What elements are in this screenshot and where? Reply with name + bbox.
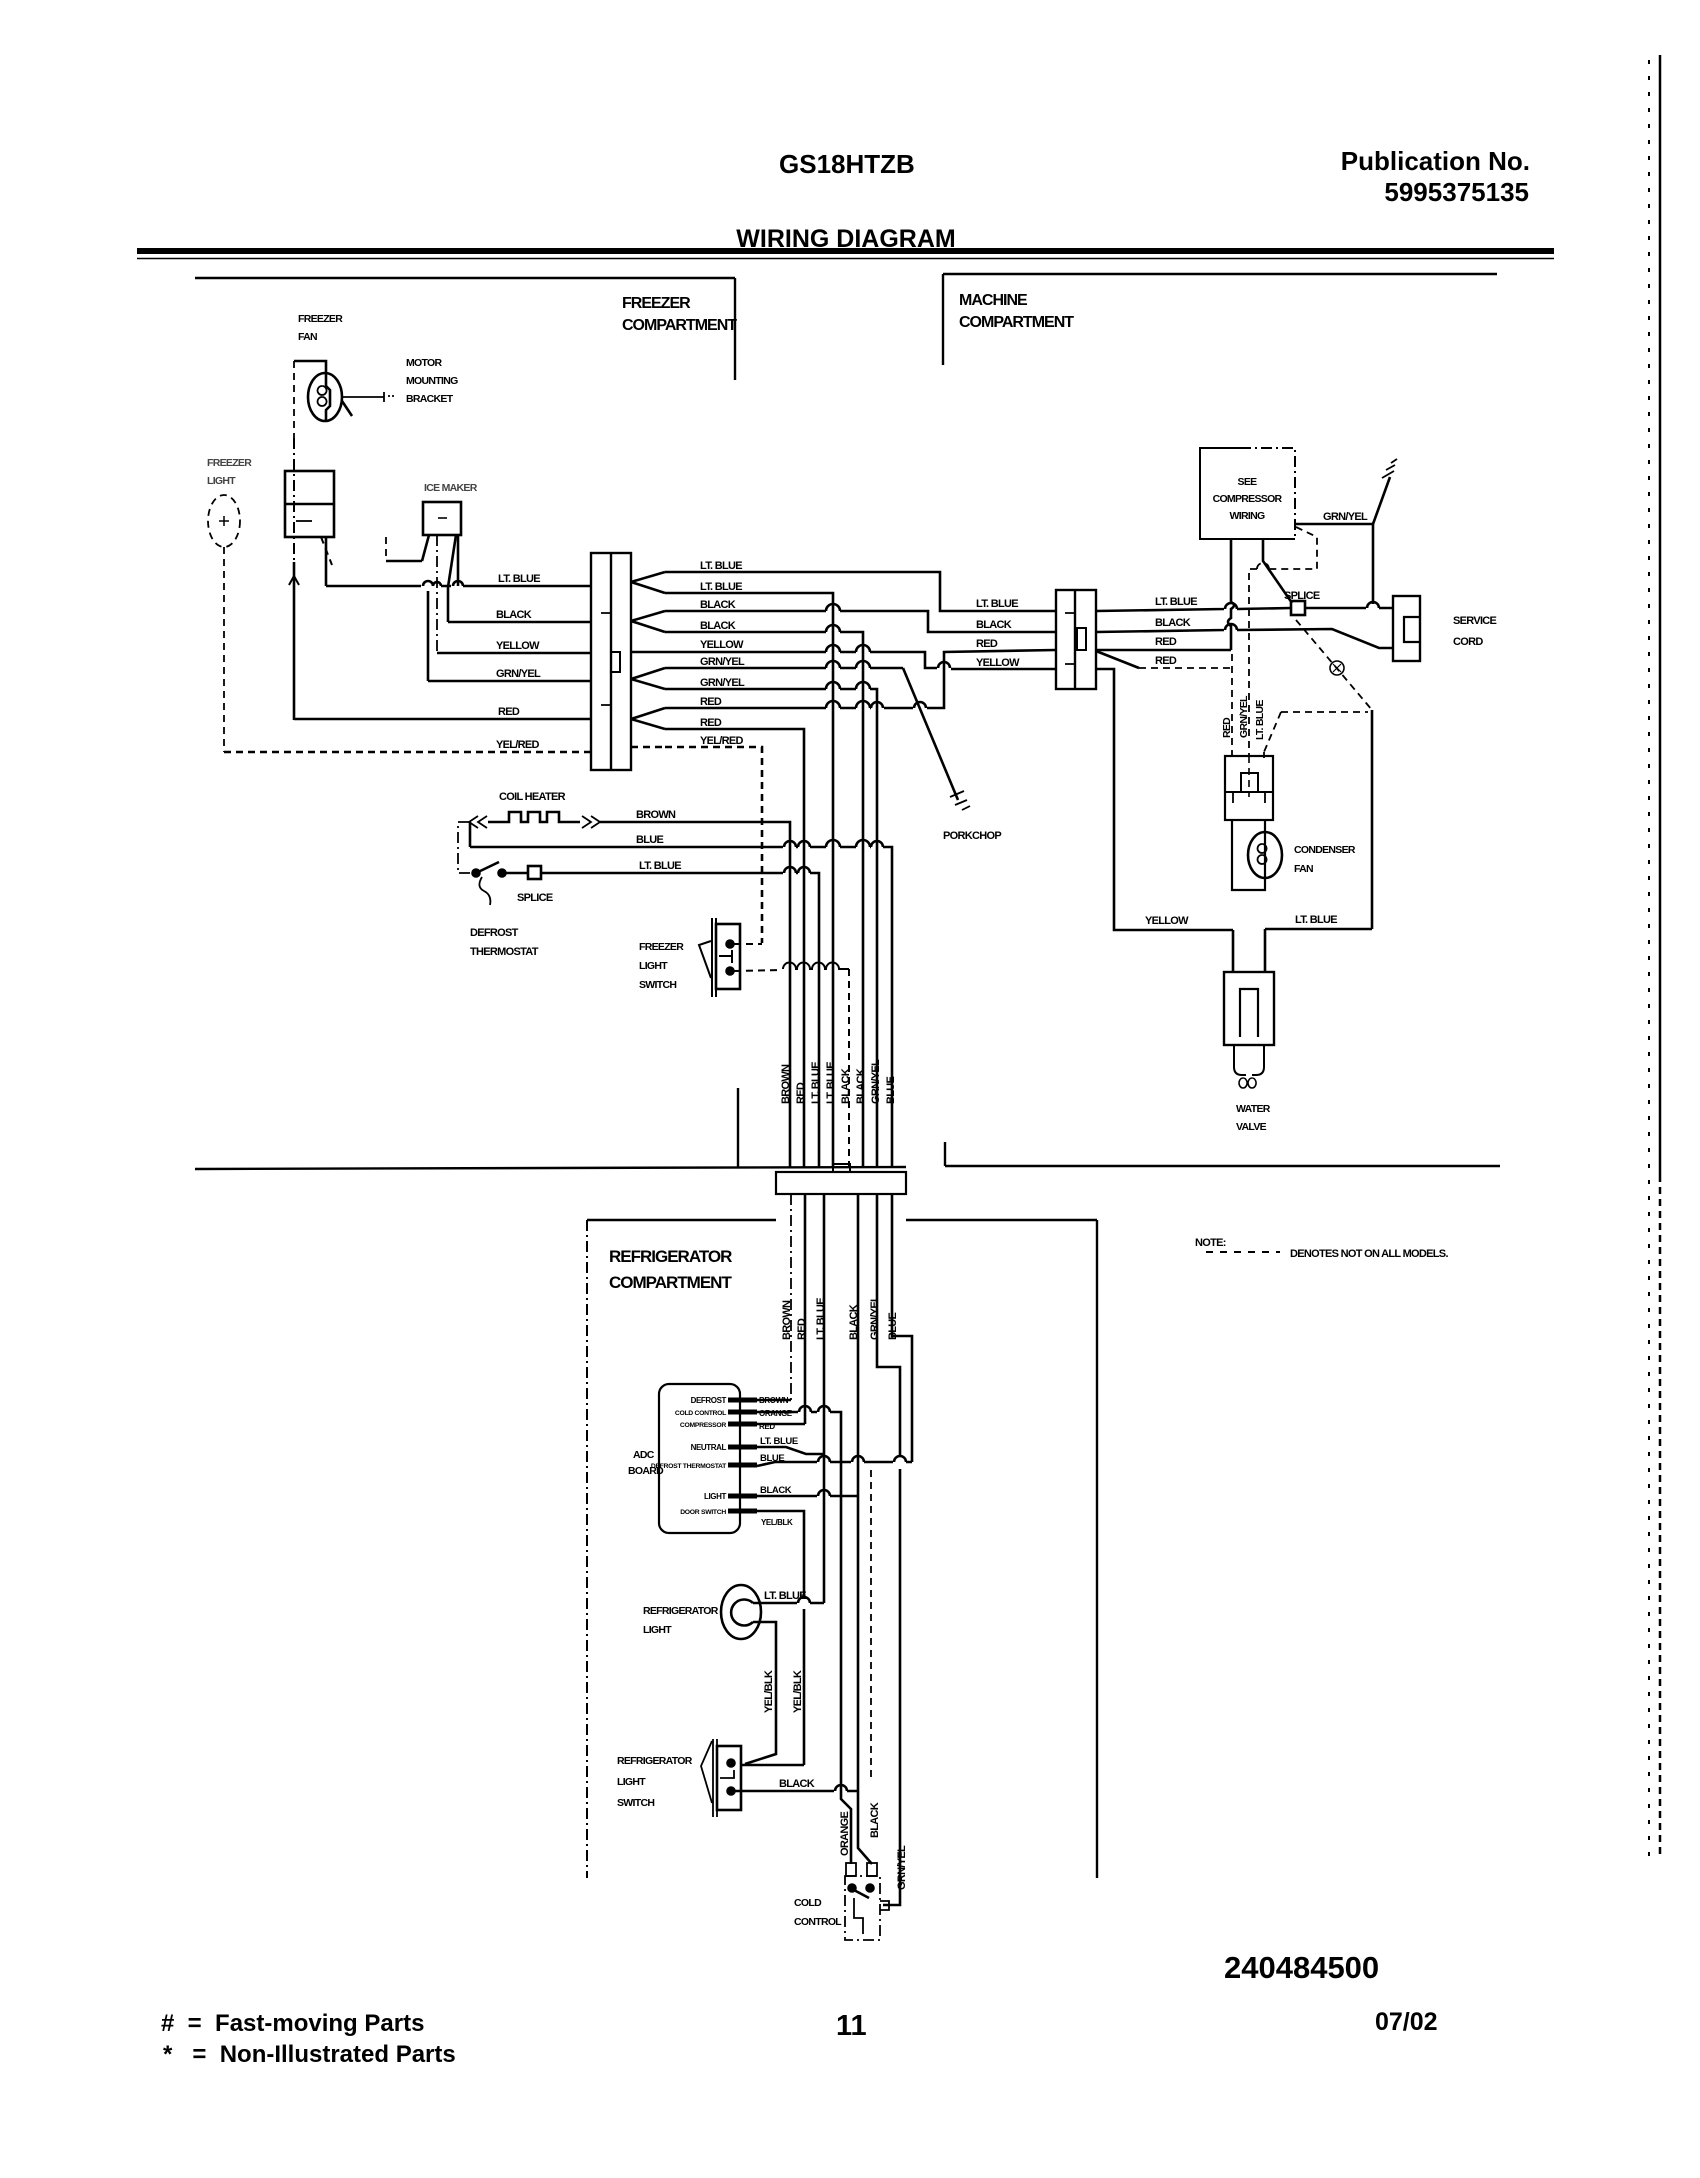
- freezer light bulb center mark: [219, 516, 229, 526]
- wire grn/yel 2 hops then bundle drop x877: [665, 682, 877, 1167]
- freezer fan bracket wire: [294, 361, 326, 374]
- wire lt blue ice maker riser: [457, 536, 460, 586]
- svg-text:BROWN: BROWN: [781, 1300, 793, 1340]
- wire red dash-dot riser from fan bracket: [293, 438, 295, 562]
- svg-text:BLACK: BLACK: [976, 619, 1012, 631]
- see compressor wiring box: [1200, 448, 1295, 539]
- grn/yel dashed route to splice area: [1249, 527, 1317, 756]
- wire black drop to cold control: [858, 1194, 872, 1864]
- svg-text:* = Non-Illustrated Parts: * = Non-Illustrated Parts: [163, 2041, 456, 2068]
- cold control right pin stub: [880, 1901, 889, 1910]
- bundle connector J3 body: [776, 1172, 906, 1194]
- connector J2 key notch: [1077, 628, 1086, 650]
- svg-text:BLACK: BLACK: [760, 1485, 792, 1496]
- freezer light bulb dashed circle: [208, 495, 240, 547]
- coil heater element: [488, 812, 580, 822]
- ADC pin neutral: [728, 1445, 757, 1450]
- ADC pin defrost thermostat: [728, 1463, 757, 1468]
- svg-text:BLACK: BLACK: [700, 620, 736, 632]
- water valve feed right: [1264, 929, 1267, 972]
- refrigerator compartment top border left: [587, 1219, 776, 1221]
- refrigerator light switch flag: [701, 1741, 712, 1803]
- connector J1 pin yellow stub: [631, 651, 665, 654]
- svg-text:BLUE: BLUE: [885, 1076, 897, 1104]
- svg-text:PORKCHOP: PORKCHOP: [943, 830, 1001, 842]
- svg-text:WATER: WATER: [1236, 1103, 1271, 1115]
- svg-text:DENOTES NOT ON ALL MODELS.: DENOTES NOT ON ALL MODELS.: [1290, 1248, 1448, 1260]
- splice square: [1291, 601, 1305, 615]
- svg-text:FREEZER: FREEZER: [622, 295, 691, 312]
- svg-text:REFRIGERATOR: REFRIGERATOR: [609, 1247, 732, 1266]
- wire blue row to defrost thermostat pin: [757, 1456, 912, 1466]
- compressor box right pin drop to splice diagonal: [1263, 539, 1292, 603]
- compressor pedestal: [1232, 820, 1265, 890]
- svg-text:COLD: COLD: [794, 1897, 822, 1909]
- dashed boundary horizontal: [1281, 711, 1368, 713]
- wire red dashed drop to relay: [1231, 654, 1233, 756]
- cold control lever: [852, 1889, 869, 1898]
- svg-text:CORD: CORD: [1453, 636, 1483, 648]
- freezer fan red lead diagonal: [342, 401, 352, 416]
- svg-text:YEL/BLK: YEL/BLK: [761, 1518, 793, 1527]
- svg-text:LIGHT: LIGHT: [617, 1776, 646, 1788]
- main connector J1 key notch: [611, 652, 620, 672]
- svg-text:RED: RED: [795, 1082, 807, 1104]
- svg-text:# = Fast-moving Parts: # = Fast-moving Parts: [161, 2010, 424, 2037]
- freezer fan bracket dashed drop: [293, 361, 295, 438]
- freezer compartment bottom right stub: [737, 1088, 739, 1168]
- svg-text:LT. BLUE: LT. BLUE: [1155, 596, 1197, 608]
- wire grn/yel 1 run hops to porkchop diagonal: [665, 661, 903, 668]
- wire red riser to red row: [293, 562, 296, 720]
- svg-text:LT. BLUE: LT. BLUE: [810, 1062, 822, 1104]
- motor mounting bracket lead: [342, 396, 384, 398]
- relay overload box: [1225, 756, 1273, 820]
- svg-text:LT. BLUE: LT. BLUE: [976, 598, 1018, 610]
- connector J1 chevron pin grn/yel: [631, 668, 665, 689]
- svg-text:BRACKET: BRACKET: [406, 393, 454, 405]
- freezer compartment right border stub: [734, 278, 736, 380]
- ice maker pin A arm: [386, 560, 422, 563]
- ice maker box: [423, 502, 461, 535]
- relay divider: [1225, 791, 1273, 793]
- rule echo line: [137, 258, 1554, 260]
- wire yel/red freezer light dashed drop: [223, 547, 225, 752]
- svg-text:REFRIGERATOR: REFRIGERATOR: [643, 1605, 719, 1617]
- svg-text:GRN/YEL: GRN/YEL: [869, 1295, 881, 1340]
- wire lt blue bottom run: [1265, 928, 1372, 931]
- freezer light switch notch: [719, 950, 732, 963]
- svg-text:YELLOW: YELLOW: [976, 657, 1020, 669]
- coil heater left arrows: [469, 816, 487, 828]
- svg-text:DEFROST: DEFROST: [691, 1396, 727, 1405]
- connector J2 body: [1056, 590, 1096, 689]
- svg-text:GRN/YEL: GRN/YEL: [700, 656, 745, 668]
- wire red 1 run hops and rise to connector2: [665, 650, 1056, 708]
- water valve body: [1224, 972, 1274, 1045]
- motor mounting bracket pin symbol: [384, 392, 394, 402]
- svg-text:REFRIGERATOR: REFRIGERATOR: [617, 1755, 693, 1767]
- condenser fan coil: [1258, 844, 1267, 864]
- service cord plug body: [1393, 596, 1420, 661]
- page edge inner dotted line: [1648, 60, 1650, 1860]
- page edge lower dashed line: [1659, 1175, 1662, 1855]
- freezer light housing contact: [296, 520, 312, 522]
- svg-text:RED: RED: [976, 638, 998, 650]
- ice maker pin A dashed stub: [385, 537, 387, 560]
- freezer light switch mounting plate: [712, 918, 716, 997]
- cold control pin stub black: [867, 1863, 877, 1876]
- svg-text:MOTOR: MOTOR: [406, 357, 443, 369]
- wire lt blue row to connector: [326, 581, 591, 586]
- freezer light housing dashed lead: [321, 537, 332, 565]
- machine compartment bottom left stub: [944, 1142, 946, 1166]
- svg-text:LT. BLUE: LT. BLUE: [815, 1298, 827, 1340]
- wire brown dash-dot drop to ADC: [790, 1194, 792, 1400]
- cold control pin stub orange: [846, 1863, 856, 1876]
- svg-text:RED: RED: [700, 696, 722, 708]
- svg-text:SERVICE: SERVICE: [1453, 615, 1497, 627]
- svg-text:CONDENSER: CONDENSER: [1294, 844, 1356, 856]
- wire orange pin with hops to drop x841: [757, 1406, 851, 1864]
- svg-text:FREEZER: FREEZER: [207, 457, 252, 469]
- svg-text:COMPARTMENT: COMPARTMENT: [609, 1273, 732, 1292]
- service cord plug notch: [1404, 617, 1420, 642]
- wire lt blue run hops to bundle drop x819: [541, 867, 819, 1167]
- svg-text:BLUE: BLUE: [887, 1312, 899, 1340]
- water valve prongs: [1234, 1045, 1264, 1075]
- wire yel/red dashed row to connector: [224, 751, 591, 754]
- svg-text:BLACK: BLACK: [840, 1068, 852, 1104]
- porkchop ground hatches: [950, 791, 970, 810]
- bundle connector J3 key bump: [833, 1164, 850, 1172]
- connector J1 chevron pin black: [631, 611, 665, 632]
- main connector J1 ticks: [601, 613, 611, 705]
- refrigerator light filament C: [731, 1600, 753, 1626]
- svg-text:YELLOW: YELLOW: [1145, 915, 1189, 927]
- svg-text:RED: RED: [700, 717, 722, 729]
- svg-text:YEL/RED: YEL/RED: [700, 735, 744, 747]
- refrigerator light switch plate: [713, 1739, 717, 1817]
- defrost thermostat sensing hook: [479, 877, 490, 905]
- svg-text:BLACK: BLACK: [848, 1304, 860, 1340]
- wire lt blue condenser dashed stub: [1263, 752, 1265, 758]
- svg-text:DOOR SWITCH: DOOR SWITCH: [680, 1509, 726, 1516]
- wire red row to compressor drop: [1096, 649, 1231, 652]
- wire red dashed branch from connector J2: [1096, 651, 1139, 668]
- svg-text:LIGHT: LIGHT: [639, 960, 668, 972]
- refrigerator compartment top border right: [906, 1219, 1097, 1221]
- svg-text:FAN: FAN: [298, 331, 317, 343]
- ADC pin light: [728, 1494, 757, 1499]
- svg-text:COMPARTMENT: COMPARTMENT: [959, 314, 1074, 331]
- freezer compartment top border: [195, 277, 735, 279]
- porkchop ground diagonal: [903, 668, 958, 800]
- svg-text:COMPARTMENT: COMPARTMENT: [622, 317, 737, 334]
- page edge solid line: [1659, 55, 1662, 1175]
- circled terminal symbol: [1330, 661, 1344, 675]
- wire arrow on red riser: [289, 576, 299, 590]
- svg-text:DEFROST: DEFROST: [470, 927, 519, 939]
- ice maker pin C slant: [448, 535, 456, 587]
- freezer fan motor coil: [318, 386, 327, 406]
- wire yellow ice maker dash-dot drop: [436, 535, 438, 653]
- svg-text:WIRING: WIRING: [1230, 510, 1265, 522]
- svg-text:YEL/RED: YEL/RED: [496, 739, 540, 751]
- wire yellow run hops step down hop to connector2: [665, 645, 1056, 669]
- ADC pin compressor: [728, 1422, 757, 1427]
- svg-text:LT. BLUE: LT. BLUE: [700, 581, 742, 593]
- wire black dashed hops: [783, 963, 849, 969]
- svg-text:BLACK: BLACK: [869, 1802, 881, 1838]
- wire black ice maker drop: [447, 587, 450, 622]
- grn/yel antenna hatches: [1382, 459, 1397, 478]
- wire yel/blk bulb drop x776: [745, 1622, 776, 1764]
- wire black switch run with hop: [735, 1785, 858, 1791]
- wire black row to light pin: [757, 1490, 858, 1496]
- wire yellow from J2 down left side: [1096, 669, 1233, 930]
- svg-text:RED: RED: [498, 706, 520, 718]
- wire blue run with hops to bundle drop x892: [470, 840, 892, 1167]
- water valve coil marks: [1239, 1078, 1256, 1088]
- svg-text:RED: RED: [796, 1318, 808, 1340]
- wire black 1 run hop and step down to row 632: [665, 604, 1056, 632]
- ADC board outline: [659, 1384, 740, 1533]
- svg-text:SWITCH: SWITCH: [639, 979, 676, 991]
- refrigerator light switch notch: [720, 1770, 734, 1778]
- wire lt blue row splice to plug: [1096, 602, 1393, 611]
- wire yel/blk pin to drop x804: [757, 1511, 804, 1765]
- svg-text:BLACK: BLACK: [779, 1778, 815, 1790]
- title rule: [137, 248, 1554, 254]
- wire brown pin to drop: [757, 1399, 791, 1402]
- machine compartment top border: [943, 273, 1497, 275]
- svg-text:YELLOW: YELLOW: [496, 640, 540, 652]
- refrigerator compartment left dash-dot border: [586, 1220, 588, 1878]
- wire blue drop jog: [892, 1194, 912, 1462]
- freezer fan motor circle M1: [308, 373, 342, 421]
- machine compartment bottom border: [945, 1165, 1500, 1167]
- main connector J1 divider: [610, 553, 612, 770]
- svg-text:240484500: 240484500: [1224, 1950, 1379, 1985]
- svg-text:LIGHT: LIGHT: [704, 1492, 727, 1501]
- svg-text:GRN/YEL: GRN/YEL: [870, 1059, 882, 1104]
- svg-text:5995375135: 5995375135: [1384, 177, 1529, 207]
- wire black row to plug diagonal: [1096, 624, 1393, 648]
- svg-text:BROWN: BROWN: [780, 1064, 792, 1104]
- svg-text:RED: RED: [1221, 717, 1233, 738]
- svg-text:BLACK: BLACK: [855, 1068, 867, 1104]
- freezer light housing box: [285, 471, 334, 537]
- wire yel/red dashed to switch top pin: [734, 943, 762, 945]
- relay inner socket: [1241, 773, 1258, 792]
- connector J1 pin yel/red dashed stub: [631, 746, 665, 749]
- coil heater return riser: [469, 822, 472, 847]
- wire lt blue neutral pin link: [757, 1447, 824, 1454]
- condenser fan motor circle: [1248, 832, 1282, 878]
- refrigerator compartment right border: [1096, 1220, 1098, 1878]
- dashed boundary diagonal from splice: [1296, 620, 1372, 710]
- wire lt blue bulb to drop: [753, 1597, 824, 1603]
- svg-text:YELLOW: YELLOW: [700, 639, 744, 651]
- wire lt blue drop to light: [823, 1194, 826, 1603]
- connector J2 ticks: [1065, 613, 1075, 664]
- svg-text:LIGHT: LIGHT: [643, 1624, 672, 1636]
- wire grn/yel ice maker drop: [427, 591, 430, 681]
- svg-text:11: 11: [836, 2010, 867, 2042]
- freezer light housing lead: [325, 537, 328, 586]
- connector J1 chevron pin lt blue: [631, 572, 665, 593]
- svg-text:SPLICE: SPLICE: [1284, 590, 1320, 602]
- cold control contact dots: [849, 1885, 856, 1892]
- wire lt blue 2 to bundle drop x833: [665, 593, 833, 1167]
- wire yel/red dashed to switch drop x762: [665, 747, 762, 943]
- svg-text:GRN/YEL: GRN/YEL: [496, 668, 541, 680]
- dashed boundary diagonal to relay: [1264, 712, 1281, 752]
- grn/yel antenna diagonal: [1373, 477, 1390, 524]
- svg-text:ADC: ADC: [633, 1449, 655, 1461]
- svg-text:GRN/YEL: GRN/YEL: [1238, 695, 1250, 738]
- svg-text:BLACK: BLACK: [496, 609, 532, 621]
- freezer fan motor shaft line: [326, 374, 330, 421]
- svg-text:SEE: SEE: [1238, 476, 1258, 488]
- wire grn/yel row to connector: [428, 680, 591, 683]
- ice maker box contact: [438, 517, 447, 519]
- connector J2 divider: [1074, 590, 1076, 689]
- svg-text:NOTE:: NOTE:: [1195, 1237, 1226, 1249]
- svg-text:BROWN: BROWN: [636, 809, 676, 821]
- svg-text:ORANGE: ORANGE: [839, 1812, 851, 1856]
- freezer light switch pin dots: [727, 941, 734, 948]
- svg-text:GRN/YEL: GRN/YEL: [1323, 511, 1368, 523]
- svg-text:COMPRESSOR: COMPRESSOR: [680, 1422, 726, 1429]
- cold control capillary: [854, 1898, 863, 1934]
- svg-text:FREEZER: FREEZER: [639, 941, 684, 953]
- svg-text:YEL/BLK: YEL/BLK: [792, 1670, 804, 1713]
- svg-text:LIGHT: LIGHT: [207, 475, 236, 487]
- svg-text:SPLICE: SPLICE: [517, 892, 553, 904]
- grn/yel drop beside plug: [1372, 524, 1375, 604]
- svg-text:BLACK: BLACK: [700, 599, 736, 611]
- cold control box: [845, 1876, 880, 1940]
- svg-text:GRN/YEL: GRN/YEL: [700, 677, 745, 689]
- svg-text:MOUNTING: MOUNTING: [406, 375, 458, 387]
- compressor box left pin drop to red: [1228, 539, 1234, 650]
- svg-text:FAN: FAN: [1294, 863, 1313, 875]
- svg-text:ORANGE: ORANGE: [759, 1409, 793, 1418]
- svg-text:07/02: 07/02: [1375, 2008, 1438, 2036]
- wire lt blue 1 run to x940 and down to row 611: [665, 572, 1056, 611]
- svg-text:SWITCH: SWITCH: [617, 1797, 654, 1809]
- wire black 2 hop then bundle drop x863: [665, 625, 863, 1167]
- wire brown run to bundle drop x790: [600, 822, 790, 1167]
- wire yellow row to connector: [437, 652, 591, 655]
- relay inner dashed pin: [1248, 756, 1250, 797]
- svg-text:GS18HTZB: GS18HTZB: [779, 149, 915, 179]
- svg-text:GRN/YEL: GRN/YEL: [896, 1845, 908, 1890]
- svg-text:COIL HEATER: COIL HEATER: [499, 791, 566, 803]
- relay inner pins: [1233, 792, 1265, 803]
- wire grn/yel drop jog: [877, 1194, 900, 1905]
- ice maker pin A slant: [422, 535, 429, 561]
- splice square on lt blue: [528, 866, 541, 879]
- svg-text:THERMOSTAT: THERMOSTAT: [470, 946, 539, 958]
- coil heater right arrow: [582, 816, 600, 828]
- svg-text:RED: RED: [1155, 655, 1177, 667]
- ADC pin defrost: [728, 1398, 757, 1403]
- freezer light housing divider: [285, 503, 334, 506]
- defrost thermostat contact dots: [473, 870, 480, 877]
- defrost thermostat dash-dot feed: [458, 822, 470, 873]
- svg-text:LT. BLUE: LT. BLUE: [639, 860, 681, 872]
- wire black dashed stub near ADC: [870, 1470, 872, 1780]
- svg-text:Publication No.: Publication No.: [1341, 146, 1530, 176]
- refrigerator light bulb circle: [721, 1585, 761, 1639]
- svg-text:COMPRESSOR: COMPRESSOR: [1213, 493, 1283, 505]
- defrost thermostat lever: [476, 862, 499, 873]
- freezer compartment bottom border: [195, 1167, 906, 1169]
- svg-text:YEL/BLK: YEL/BLK: [763, 1670, 775, 1713]
- wire red row to connector: [294, 718, 591, 721]
- wire black dashed switch to bundle drop x849: [734, 969, 849, 1167]
- refrigerator light switch pins: [728, 1760, 735, 1767]
- main connector J1 body: [591, 553, 631, 770]
- svg-text:LT. BLUE: LT. BLUE: [760, 1436, 798, 1447]
- svg-text:CONTROL: CONTROL: [794, 1916, 842, 1928]
- wire yel/blk 2 to switch pin: [742, 1764, 804, 1767]
- wire red drop to ADC: [804, 1194, 807, 1424]
- note dash sample: [1206, 1251, 1280, 1253]
- svg-text:ICE MAKER: ICE MAKER: [424, 482, 478, 494]
- svg-text:DEFROST THERMOSTAT: DEFROST THERMOSTAT: [651, 1463, 727, 1470]
- svg-text:LT. BLUE: LT. BLUE: [1254, 700, 1266, 740]
- svg-text:FREEZER: FREEZER: [298, 313, 343, 325]
- water valve feed left: [1232, 930, 1235, 972]
- wire lt blue heater row: [506, 872, 528, 875]
- grn/yel solid wire from box: [1295, 523, 1373, 526]
- ADC pin cold control: [728, 1410, 757, 1415]
- svg-text:COLD CONTROL: COLD CONTROL: [675, 1410, 726, 1417]
- water valve inner window: [1240, 989, 1258, 1037]
- freezer light switch flag: [699, 941, 711, 978]
- svg-text:LT. BLUE: LT. BLUE: [1295, 914, 1337, 926]
- svg-text:MACHINE: MACHINE: [959, 292, 1028, 309]
- svg-text:LT. BLUE: LT. BLUE: [498, 573, 540, 585]
- wire red pin stub: [757, 1423, 805, 1426]
- svg-text:NEUTRAL: NEUTRAL: [691, 1443, 727, 1452]
- wire lt blue condenser right boundary drop: [1371, 710, 1374, 929]
- freezer light switch body: [716, 924, 740, 989]
- machine compartment left border stub: [942, 274, 944, 365]
- svg-text:VALVE: VALVE: [1236, 1121, 1267, 1133]
- svg-text:BLUE: BLUE: [636, 834, 664, 846]
- connector J1 chevron pin red: [631, 708, 665, 729]
- wire red 2 to bundle drop x804: [665, 729, 804, 1167]
- ADC pin door switch: [728, 1509, 757, 1514]
- wire black row to connector: [448, 621, 591, 624]
- refrigerator light switch body: [717, 1746, 741, 1810]
- svg-text:LT. BLUE: LT. BLUE: [825, 1062, 837, 1104]
- svg-text:BLACK: BLACK: [1155, 617, 1191, 629]
- svg-text:LT. BLUE: LT. BLUE: [700, 560, 742, 572]
- svg-text:RED: RED: [1155, 636, 1177, 648]
